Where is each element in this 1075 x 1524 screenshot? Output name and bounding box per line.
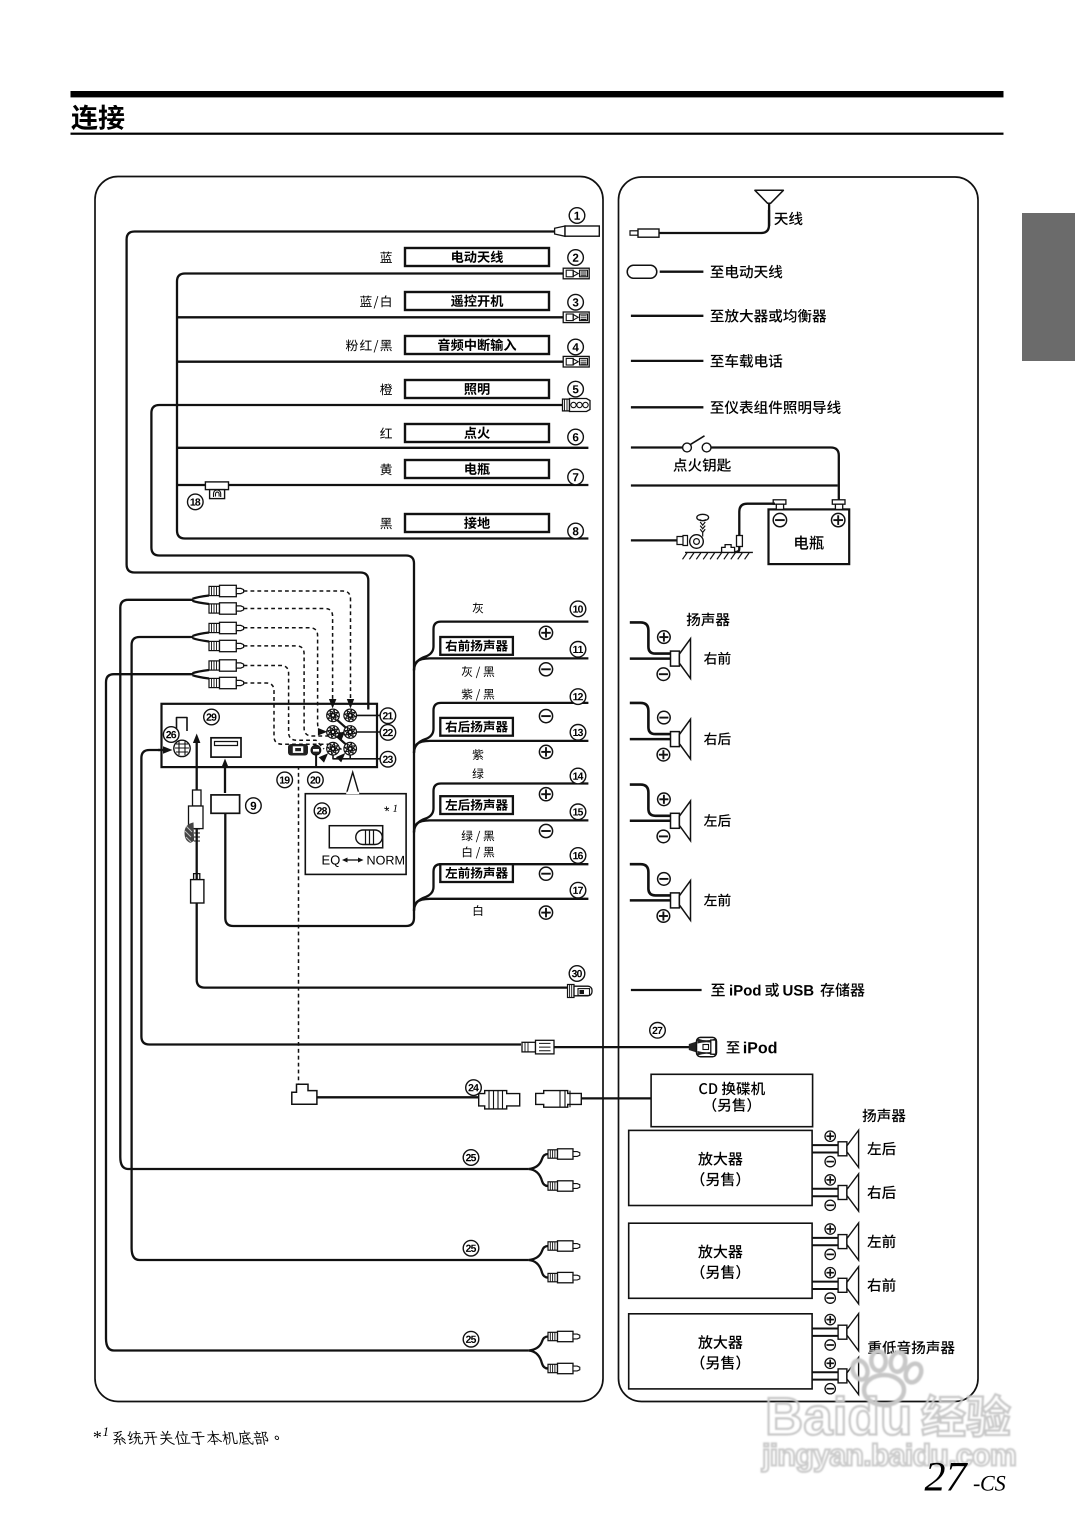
callout 2 xyxy=(568,250,584,266)
RCA jack 2 on unit rear xyxy=(344,709,357,722)
preout cable pair 2 upper lead xyxy=(193,633,210,637)
lead 4 function box 音频中断输入 xyxy=(405,336,549,354)
car phone lead xyxy=(631,360,704,362)
iPod 30-pin connector xyxy=(689,1042,697,1053)
speaker box 左后扬声器 xyxy=(440,796,513,814)
amplifier box (sold separately) xyxy=(629,1314,812,1389)
lead 6 color label 红 xyxy=(380,427,392,438)
output RCA plug at y=1246 xyxy=(548,1242,558,1250)
amp speaker icon xyxy=(838,1278,847,1292)
lead 3 terminal connector xyxy=(563,312,589,323)
speaker pair label bottom 绿 / 黑 xyxy=(462,830,495,842)
output RCA plug at y=1277.6 xyxy=(548,1273,558,1281)
*1 superscript note xyxy=(384,806,390,811)
page number 27-CS xyxy=(925,1463,968,1491)
baidu watermark url xyxy=(762,1443,1016,1472)
EQ NORM switch box 28 xyxy=(305,794,406,875)
speaker 左前 polarity xyxy=(658,873,671,886)
callout 16 xyxy=(570,848,586,864)
wire lead 4 audio interrupt xyxy=(177,361,564,363)
callout 25 xyxy=(463,1240,479,1256)
inline mini connector on iPod wire xyxy=(522,1042,536,1052)
dashed preout route plug2 to jack top-left xyxy=(244,609,333,701)
callout 9 xyxy=(246,798,262,814)
battery constant lead xyxy=(631,484,838,486)
output cable Y split xyxy=(529,1246,548,1260)
lead 2 color label 蓝 xyxy=(380,251,392,262)
harness socket on unit xyxy=(211,738,241,757)
wire iPod cable to DIN socket 26 xyxy=(141,750,521,1045)
dashed preout route plug1 to jack top-right xyxy=(244,591,351,700)
polarity sign bottom xyxy=(539,906,552,919)
speaker box 右前扬声器 xyxy=(440,637,513,655)
speaker pair label 紫 / 黑 xyxy=(462,689,495,701)
callout 21 xyxy=(380,708,396,724)
wire from connector B to CD changer box xyxy=(581,1097,651,1099)
wire lead 3 remote turn-on xyxy=(177,316,564,318)
dashed preout route plug6 to jack bottom-right xyxy=(244,683,342,750)
amp speaker leads xyxy=(812,1237,838,1239)
link 20 to panel edge xyxy=(315,755,317,767)
polarity sign bottom xyxy=(539,745,552,758)
speaker 右前 curved + lead xyxy=(630,622,671,653)
chassis ground hatching xyxy=(685,551,753,553)
polarity sign top xyxy=(539,867,552,880)
lead 1 antenna plug connector xyxy=(555,226,565,236)
speaker pair label bottom 白 xyxy=(474,905,482,916)
header thick rule xyxy=(71,91,1004,97)
wire antenna adapter + USB cable 30 xyxy=(197,742,567,988)
speaker 左后 straight lead xyxy=(630,820,671,823)
ring terminal eyelet xyxy=(690,535,704,549)
speaker wire pair right-front + xyxy=(414,622,588,671)
RCA jack 5 on unit rear xyxy=(327,742,340,755)
speaker 右前 polarity xyxy=(658,631,671,644)
callout 10 xyxy=(570,601,586,617)
lead 2 function box 电动天线 xyxy=(405,248,549,266)
RCA jack 6 on unit rear xyxy=(344,742,357,755)
amplifier box (sold separately) xyxy=(629,1223,812,1298)
speaker wire pair left-rear + xyxy=(414,784,588,833)
preout cable pair 3 trunk down to output row xyxy=(106,674,529,1350)
lead 4 terminal connector xyxy=(563,356,589,367)
RCA jack 1 on unit rear xyxy=(327,709,340,722)
connector 19 socket on unit xyxy=(288,744,308,756)
inline connector on USB cable xyxy=(191,880,204,903)
CD changer inline connector A xyxy=(479,1091,520,1109)
callout 8 xyxy=(568,523,584,539)
lead 8 color label 黑 xyxy=(380,518,391,529)
antenna adapter plug on hanging cable xyxy=(193,790,202,806)
callout 11 xyxy=(570,642,586,658)
callout 23 xyxy=(380,751,396,767)
antenna jack stub 29 xyxy=(177,718,188,732)
speaker wire pair right-rear + xyxy=(414,703,588,753)
callout 25 xyxy=(463,1331,479,1347)
DIN connector 26 on unit xyxy=(174,740,190,756)
mounting screw xyxy=(697,514,709,520)
CD changer box xyxy=(651,1074,813,1126)
head unit rear panel box xyxy=(162,704,378,767)
callout 29 xyxy=(204,709,220,725)
preout cable pair 3 upper lead xyxy=(193,670,210,673)
output cable Y split xyxy=(529,1337,548,1351)
callout 15 xyxy=(570,804,586,820)
speaker pair label bottom 紫 xyxy=(473,749,484,760)
speaker pair label bottom 灰 / 黑 xyxy=(462,666,495,678)
preout RCA plug at y=646 xyxy=(209,641,220,650)
callout 19 xyxy=(277,772,293,788)
callout 5 xyxy=(568,381,584,397)
preout RCA plug at y=591 xyxy=(209,586,220,595)
lead 2 terminal connector xyxy=(563,268,589,279)
fuse holder 18 on battery lead xyxy=(205,482,228,490)
callout 14 xyxy=(570,768,586,784)
speaker wire pair left-rear - xyxy=(414,820,588,832)
dashed route from RCA jacks 19 connector down to CD-changer plug xyxy=(298,766,300,1084)
lead 5 color label 橙 xyxy=(380,383,392,395)
preout RCA plug at y=608.5 xyxy=(209,604,220,613)
speaker 左前 straight lead xyxy=(630,899,671,902)
amp speaker icon xyxy=(838,1186,847,1200)
dashed preout route plug3 to jack mid-left xyxy=(244,628,326,732)
wire lead 6 ignition xyxy=(177,447,588,449)
CD changer inline connector B xyxy=(536,1091,582,1108)
callout 30 xyxy=(569,966,585,982)
speaker wire pair left-front + xyxy=(414,864,588,911)
dashed preout route plug5 to jack bottom-left xyxy=(244,666,324,750)
lead 3 function box 遥控开机 xyxy=(405,292,549,310)
polarity sign top xyxy=(539,788,552,801)
callout 7 xyxy=(568,469,584,485)
left panel frame xyxy=(95,177,603,1402)
output RCA plug at y=1154 xyxy=(548,1150,558,1158)
speaker wire pair left-front - xyxy=(414,899,588,911)
speaker 右前 straight lead xyxy=(630,657,671,660)
amp speaker leads xyxy=(812,1371,838,1373)
callout 18 xyxy=(188,494,204,510)
callout 24 xyxy=(466,1080,482,1096)
lead 8 function box 接地 xyxy=(405,514,549,532)
header thin rule xyxy=(71,133,1004,135)
battery negative post xyxy=(773,500,786,504)
amp speaker icon xyxy=(838,1142,847,1156)
instrument illumination lead xyxy=(631,406,704,408)
solid links jacks to callouts 21-23 xyxy=(356,714,381,716)
callout 3 xyxy=(568,294,584,310)
output RCA plug at y=1186 xyxy=(548,1182,558,1190)
preout RCA plug at y=683 xyxy=(209,678,220,687)
CD changer cable L-plug xyxy=(292,1084,317,1104)
iPod/USB lead xyxy=(631,989,702,991)
amp speaker leads xyxy=(812,1188,838,1190)
polarity sign top xyxy=(539,710,552,723)
speaker wire pair right-rear - xyxy=(414,741,588,753)
speaker 右后 polarity xyxy=(658,711,671,724)
speaker 右前 icon xyxy=(671,651,680,666)
amplifier box (sold separately) xyxy=(629,1130,812,1205)
preout cable pair 1 lower lead xyxy=(193,601,210,604)
right edge gray tab xyxy=(1022,213,1075,361)
polarity sign bottom xyxy=(539,663,552,676)
speaker 右后 straight lead xyxy=(630,738,671,741)
antenna lead stub into unit xyxy=(367,704,369,710)
diagonal pair links between jacks xyxy=(337,720,347,729)
preout cable pair 2 trunk down to output row xyxy=(132,637,529,1260)
amp speaker leads xyxy=(812,1281,838,1283)
callout 6 xyxy=(568,429,584,445)
dashed preout route plug4 to jack mid-right xyxy=(244,646,342,736)
harness plug 9 box xyxy=(211,795,240,813)
amp speaker icon xyxy=(838,1325,847,1339)
speaker 左后 polarity xyxy=(658,793,671,806)
antenna plug xyxy=(630,231,638,235)
right panel frame xyxy=(619,177,979,1402)
preout cable pair 3 lower lead xyxy=(193,675,210,678)
wire iPod cable arrow into DIN socket xyxy=(158,749,168,751)
speaker 左前 icon xyxy=(671,893,680,908)
speaker 左后 curved + lead xyxy=(630,785,671,816)
speaker pair label 灰 xyxy=(473,603,484,614)
callout 1 xyxy=(569,208,585,224)
page title 连接 xyxy=(71,105,124,131)
preout cable pair 1 trunk down to output row xyxy=(120,600,529,1169)
wire lead 1 antenna extension: loop from connector down-left to unit xyxy=(127,232,555,710)
callout 13 xyxy=(570,725,586,741)
EQ NORM label xyxy=(323,855,340,867)
callout 17 xyxy=(570,882,586,898)
lead 5 function box 照明 xyxy=(405,380,549,398)
speaker wire pair right-front - xyxy=(414,658,588,670)
callout 22 xyxy=(380,725,396,741)
RCA jack 3 on unit rear xyxy=(327,726,340,739)
lead 7 color label 黄 xyxy=(380,463,391,475)
output cable Y split xyxy=(529,1154,548,1169)
callout 27 xyxy=(650,1023,666,1039)
chassis bracket xyxy=(722,545,735,553)
baidu watermark text xyxy=(769,1396,909,1435)
callout pointer triangle xyxy=(346,772,359,794)
lead 7 function box 电瓶 xyxy=(405,460,549,478)
speaker pair label 绿 xyxy=(473,768,484,779)
wire lead 5 illumination + speaker harness trunk xyxy=(151,405,563,926)
speaker box 左前扬声器 xyxy=(440,864,513,882)
speaker 右后 curved + lead xyxy=(630,703,671,734)
amp speaker leads xyxy=(812,1328,838,1330)
battery ground strap xyxy=(739,504,775,535)
power antenna lead xyxy=(627,265,657,278)
speaker pair label 白 / 黑 xyxy=(463,846,494,858)
callout 4 xyxy=(568,339,584,355)
callout 28 xyxy=(314,803,330,819)
wire harness plug 9 arrow into socket xyxy=(224,763,226,793)
CD changer cable wire xyxy=(317,1096,479,1098)
amplifier/equalizer lead xyxy=(631,315,704,317)
baidu watermark paw xyxy=(850,1351,924,1405)
amp speaker icon xyxy=(838,1369,847,1383)
polarity sign top xyxy=(539,626,552,639)
callout 25 xyxy=(463,1150,479,1166)
battery box xyxy=(769,509,850,564)
antenna lead-in cable xyxy=(659,210,769,233)
preout RCA plug at y=665.5 xyxy=(209,661,220,670)
callout 20 xyxy=(308,772,324,788)
amp speaker icon xyxy=(838,1235,847,1249)
lead 3 color label 蓝/白 xyxy=(360,295,391,308)
lead 5 terminal connector (3-bump) xyxy=(563,399,570,411)
battery positive post xyxy=(832,500,845,504)
preout cable pair 2 lower lead xyxy=(193,638,210,642)
speaker 左后 icon xyxy=(671,813,680,828)
wire trunk rows 2,3,4,6,7,8 vertical xyxy=(177,274,588,539)
lead 6 function box 点火 xyxy=(405,424,549,442)
lead 4 color label 粉红/黑 xyxy=(346,339,392,352)
RCA jack 4 on unit rear xyxy=(344,726,357,739)
callout 26 xyxy=(163,727,179,743)
polarity sign bottom xyxy=(539,824,552,837)
footnote xyxy=(94,1431,101,1438)
connector 20 jack on unit xyxy=(311,745,321,755)
speaker 左前 curved + lead xyxy=(630,864,671,895)
ground lead with ring terminal xyxy=(631,539,678,541)
output RCA plug at y=1368.5 xyxy=(548,1364,558,1372)
wire lead 7 battery xyxy=(177,484,588,486)
preout cable pair 1 upper lead xyxy=(193,596,210,599)
car antenna symbol xyxy=(755,190,784,203)
speaker 右后 icon xyxy=(671,732,680,747)
speaker box 右后扬声器 xyxy=(440,718,513,736)
ignition key switch xyxy=(631,446,683,448)
amp speaker leads xyxy=(812,1144,838,1146)
output RCA plug at y=1336.5 xyxy=(548,1332,558,1340)
EQ NORM switch icon xyxy=(329,826,382,848)
wire iPod cable inline connector to right panel xyxy=(554,1046,690,1048)
callout 12 xyxy=(570,689,586,705)
preout RCA plug at y=628 xyxy=(209,623,220,632)
